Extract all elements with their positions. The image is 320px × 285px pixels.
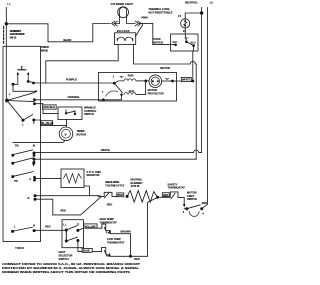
label RED tag 1 xyxy=(117,193,124,197)
svg-text:RED: RED xyxy=(134,257,140,261)
wire black: L1 to cylinder light xyxy=(6,24,110,42)
wire neutral rail xyxy=(201,8,203,153)
label MOMENTARY PUSH TO START (W-2) xyxy=(10,29,25,40)
svg-text:SWITCH: SWITCH xyxy=(59,257,69,261)
motor switch arc xyxy=(106,91,118,96)
buzzer box xyxy=(115,33,136,45)
svg-text:BUZZER: BUZZER xyxy=(117,29,130,33)
wire L2 rail xyxy=(206,8,208,205)
label MOTOR PROTECTOR xyxy=(148,88,164,95)
svg-text:MOTOR: MOTOR xyxy=(160,66,170,70)
wire resistor out xyxy=(84,186,89,196)
wire white: timer to neutral with hop xyxy=(34,150,202,153)
wire red timer to heat selector xyxy=(34,229,66,231)
cent switch arc xyxy=(189,212,199,217)
wire purple from timer to motor xyxy=(34,82,115,84)
node timer orange/redblk contacts xyxy=(33,102,36,105)
timer mid left contacts xyxy=(11,154,14,157)
cent switch blade xyxy=(187,205,200,209)
safety thermostat bump xyxy=(158,192,185,199)
node motor orange terminal xyxy=(102,98,105,101)
node L1 junction dot xyxy=(5,22,8,25)
wire safety to cent switch xyxy=(183,198,185,206)
label SAFETY THERMOSTAT xyxy=(168,182,186,189)
node timer L1 hub dot xyxy=(5,99,9,103)
timer top contact bar xyxy=(18,66,26,70)
svg-text:L1: L1 xyxy=(7,2,11,6)
node timer purple contact xyxy=(32,82,35,85)
timer box xyxy=(3,46,41,241)
node timer R contacts xyxy=(34,194,37,197)
svg-text:RED-BLK: RED-BLK xyxy=(43,105,55,109)
timer mid blades xyxy=(14,150,34,163)
wire wrinkle switch to timer motor xyxy=(66,120,68,128)
node brown/blue junction xyxy=(129,255,132,258)
svg-text:PINK: PINK xyxy=(142,16,148,20)
wire timer to buzzer rail xyxy=(34,158,196,160)
svg-text:THERMOSTAT: THERMOSTAT xyxy=(105,184,124,188)
regulating thermostat bump xyxy=(98,192,117,198)
node timer orange contact xyxy=(33,98,36,101)
svg-text:LL: LL xyxy=(63,222,67,226)
svg-text:RED: RED xyxy=(45,225,51,229)
svg-text:MOTOR: MOTOR xyxy=(148,88,158,92)
wire timer to resistor xyxy=(35,178,62,180)
buzzer coil symbol xyxy=(117,37,133,41)
timer bottom switch xyxy=(11,230,14,233)
wire run to junction xyxy=(136,80,149,82)
label WHITE tag xyxy=(181,77,191,81)
resistor box xyxy=(61,169,84,188)
thermal fuse F1/F2 xyxy=(181,19,190,28)
node timer buzzer contact xyxy=(33,158,36,161)
motor centrifugal blade xyxy=(114,83,122,92)
wire buzzer left drop to timer xyxy=(46,45,118,84)
svg-text:THERMOSTAT: THERMOSTAT xyxy=(107,240,125,244)
svg-text:YELLOW: YELLOW xyxy=(85,224,96,228)
node timer contact dots xyxy=(12,83,15,86)
svg-text:SWITCH: SWITCH xyxy=(187,197,197,201)
svg-text:NUMBER WHEN WRITING ABOUT THIS: NUMBER WHEN WRITING ABOUT THIS DRYER OR … xyxy=(2,270,130,274)
svg-text:M: M xyxy=(33,144,35,148)
label HEAT SELECTOR SWITCH xyxy=(59,250,73,261)
wire A timer to heat node xyxy=(35,195,102,198)
svg-text:RED: RED xyxy=(202,201,208,205)
label THERMAL FUSE NOT RESETTABLE xyxy=(148,7,172,14)
svg-text:TM: TM xyxy=(14,179,18,183)
label HIGH TEMP THERMOSTAT xyxy=(100,217,118,224)
svg-text:(W-2): (W-2) xyxy=(10,36,17,40)
svg-text:DOOR: DOOR xyxy=(153,37,161,41)
wrinkle control switch box xyxy=(58,107,82,120)
node timer lower pair contacts xyxy=(22,119,25,122)
heating element zigzag xyxy=(127,191,157,203)
motor box xyxy=(98,73,176,102)
label TIMER MOTOR xyxy=(77,129,87,136)
svg-text:THERMOSTAT: THERMOSTAT xyxy=(168,186,186,190)
node motor C dot xyxy=(171,80,174,83)
label BLUE tag xyxy=(82,248,92,252)
node timer white contact xyxy=(33,152,36,155)
node neutral junction dot xyxy=(200,11,203,14)
wire from left contact xyxy=(13,84,36,91)
wire white motor to door switch drop xyxy=(177,80,193,82)
motor protector U2 xyxy=(149,75,162,88)
svg-text:B: B xyxy=(65,132,67,136)
node white junction dot xyxy=(191,80,194,83)
svg-text:PURPLE: PURPLE xyxy=(66,77,77,81)
low temp thermostat xyxy=(102,248,148,257)
wire door C stub xyxy=(185,34,186,41)
svg-text:MOMENTARY: MOMENTARY xyxy=(10,29,22,33)
svg-text:BLACK: BLACK xyxy=(63,38,71,42)
svg-text:N: N xyxy=(33,224,35,228)
timer contact arrows up xyxy=(18,74,28,85)
svg-text:R: R xyxy=(28,196,30,200)
wire brown drop xyxy=(130,234,132,257)
svg-text:SWITCH: SWITCH xyxy=(153,41,164,45)
timer cam arrow mid xyxy=(32,163,36,167)
svg-text:RED: RED xyxy=(61,208,67,212)
svg-text:KNOB: KNOB xyxy=(41,49,48,53)
svg-text:ORANGE: ORANGE xyxy=(68,95,80,99)
svg-text:PROTECTOR: PROTECTOR xyxy=(148,92,164,96)
wire yellow to high temp thermostat xyxy=(78,228,102,230)
wire red-blk to wrinkle switch xyxy=(35,104,59,114)
label DOOR SWITCH xyxy=(153,37,164,44)
svg-text:NOT RESETTABLE: NOT RESETTABLE xyxy=(148,10,172,14)
door switch blade xyxy=(186,42,193,46)
wire blue to low temp thermostat xyxy=(78,241,102,252)
wire aux to junction xyxy=(136,81,146,95)
svg-text:BL.-BLUE: BL.-BLUE xyxy=(41,121,53,125)
wire up to element xyxy=(148,197,158,256)
svg-text:BLUE: BLUE xyxy=(83,249,90,253)
node aux left dot xyxy=(120,93,122,95)
svg-text:WHITE: WHITE xyxy=(182,78,191,82)
label YELLOW tag xyxy=(84,224,97,228)
wire neutral to fuse xyxy=(185,13,201,19)
wire door NO drop xyxy=(192,46,195,81)
svg-text:RUN: RUN xyxy=(128,73,134,77)
svg-text:MOTOR: MOTOR xyxy=(77,132,87,136)
heat selector switch box xyxy=(62,220,84,248)
label HEATING ELEMENT 4750 W. xyxy=(131,178,144,189)
timer lower left contact xyxy=(11,175,14,178)
svg-text:NEUTRAL: NEUTRAL xyxy=(185,0,198,4)
label WRINKLE CONTROL SWITCH xyxy=(84,106,97,117)
svg-text:A: A xyxy=(29,177,31,181)
svg-text:RESISTOR: RESISTOR xyxy=(87,173,100,177)
svg-text:SWITCH: SWITCH xyxy=(84,112,94,116)
wire L1 down into timer xyxy=(5,24,7,100)
label LOW TEMP THERMOSTAT xyxy=(107,237,125,244)
wire L2 to cent switch xyxy=(202,204,208,208)
resistor R1 zigzag xyxy=(64,174,82,183)
svg-text:THERMOSTAT: THERMOSTAT xyxy=(100,221,118,225)
wire L1 drop xyxy=(5,8,7,24)
door switch box xyxy=(171,34,198,51)
wrinkle switch contacts xyxy=(65,112,67,114)
wire to lamp xyxy=(114,13,135,24)
wire orange from timer to motor xyxy=(35,99,104,101)
label 2.77 K OHM RESISTOR xyxy=(87,170,101,177)
wire fuse to door switch xyxy=(184,28,186,34)
aux winding coil xyxy=(124,93,136,95)
node element left dot xyxy=(126,195,129,198)
svg-text:4750 W.: 4750 W. xyxy=(131,184,141,188)
lamp cylinder light xyxy=(118,7,129,18)
run winding coil xyxy=(114,79,136,83)
label BL.-BLUE tag xyxy=(41,121,53,125)
svg-text:TIMER: TIMER xyxy=(41,45,49,49)
svg-text:2.77 K OHM: 2.77 K OHM xyxy=(87,170,101,174)
svg-text:RED: RED xyxy=(118,193,124,197)
node timer resistor contact xyxy=(33,176,36,179)
svg-text:L2: L2 xyxy=(210,1,214,5)
motor centrifugal switch contacts xyxy=(185,207,188,210)
svg-text:TM: TM xyxy=(15,143,19,147)
svg-text:CYLINDER LIGHT: CYLINDER LIGHT xyxy=(111,2,134,6)
label REGULATING THERMOSTAT xyxy=(105,180,124,187)
wire B timer to heat selector diagonal xyxy=(35,196,102,215)
svg-text:PROTECTED BY MAXIMUM 30 A. FUS: PROTECTED BY MAXIMUM 30 A. FUSES. ALWAYS… xyxy=(2,266,139,270)
node run/aux junction dot xyxy=(144,80,147,83)
label RED tag 2 xyxy=(162,193,169,197)
wire protector to C terminal xyxy=(162,80,177,82)
svg-text:CONNECT DRYER TO 120/240 V.A.C: CONNECT DRYER TO 120/240 V.A.C., 60 HZ. … xyxy=(2,262,140,266)
wire from lamp xyxy=(139,23,152,25)
svg-text:N.C.: N.C. xyxy=(173,40,178,44)
wire pink drop to door switch NC xyxy=(153,24,175,45)
wire orange to aux winding xyxy=(103,95,121,100)
node element right dot xyxy=(156,196,159,199)
timer main blades xyxy=(7,92,35,120)
svg-text:WHITE: WHITE xyxy=(101,148,110,152)
label RED-BLK tag xyxy=(43,105,57,109)
label TIMER KNOB xyxy=(41,45,49,52)
connector chevrons left of lamp xyxy=(112,21,118,26)
svg-text:AUX.: AUX. xyxy=(129,89,135,93)
label MOTOR CENT. SWITCH xyxy=(187,191,197,202)
svg-text:PUSH TO START: PUSH TO START xyxy=(10,32,25,36)
svg-text:N.O.: N.O. xyxy=(191,40,197,44)
dashed link momentary switch xyxy=(3,27,5,44)
timer motor TM xyxy=(59,127,73,141)
connector chevrons right of lamp xyxy=(135,21,141,26)
svg-text:TIMER: TIMER xyxy=(15,246,25,250)
svg-text:BROWN: BROWN xyxy=(121,229,131,233)
wire buzzer to pink node xyxy=(136,24,143,37)
high temp thermostat xyxy=(102,224,131,234)
wire bl-blue to timer motor xyxy=(34,120,67,125)
wire buzzer right drop with hop xyxy=(134,45,197,160)
wire timer motor bottom xyxy=(13,140,64,142)
timer blade lower xyxy=(14,172,34,177)
svg-text:RED: RED xyxy=(107,202,113,206)
svg-text:RED: RED xyxy=(163,193,169,197)
